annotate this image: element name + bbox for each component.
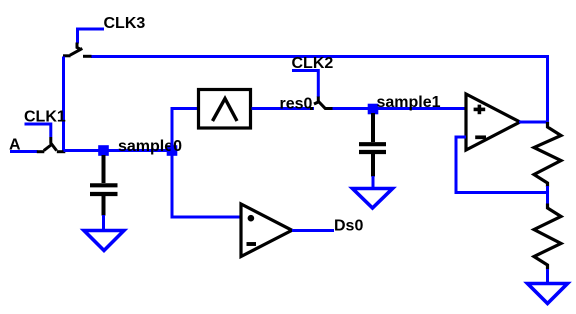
wire: vertical from S3 left terminal down to input node — [62, 57, 65, 152]
switch S1 (CLK1 controlled) — [37, 137, 66, 152]
wire: resistor midpoint stub — [546, 186, 549, 205]
peak-detector box U3 — [199, 90, 251, 129]
wire: R2 to ground — [546, 269, 549, 283]
capacitor C1 plates — [359, 144, 386, 152]
ground G2 — [528, 284, 568, 304]
node square sample0 capacitor tap — [98, 145, 109, 156]
capacitor C1 top lead — [371, 113, 375, 142]
resistor R2 — [534, 204, 561, 270]
comparator U2 plus-dot input mark — [248, 215, 255, 222]
wire: CLK3 label stub — [78, 29, 105, 44]
wire: node to sample0 horizontal — [64, 149, 173, 152]
svg-text:CLK3: CLK3 — [104, 15, 146, 32]
node square sample1 capacitor tap — [368, 104, 379, 115]
caret symbol inside box — [213, 99, 238, 122]
wire: feedback loop top horizontal and right vertical to opamp output — [91, 57, 548, 123]
wire: sample0 down to comparator input — [172, 151, 241, 218]
wire: feedback from minus input to resistor midpoint — [456, 137, 548, 193]
svg-text:res0: res0 — [280, 96, 313, 113]
svg-text:sample1: sample1 — [377, 94, 441, 111]
wire: input A horizontal — [10, 150, 38, 153]
wire: S2 to opamp plus input through sample1 — [333, 107, 467, 110]
svg-text:Ds0: Ds0 — [334, 218, 363, 235]
op-amp U1 minus mark — [475, 135, 486, 139]
op-amp U1 body — [466, 94, 520, 150]
capacitor C0 plates — [90, 185, 118, 194]
capacitor C1 bottom lead — [371, 154, 375, 177]
switch S3 (CLK3 controlled) — [63, 43, 92, 57]
ground G0 — [84, 231, 124, 251]
wire: comparator output to Ds0 — [292, 229, 334, 232]
node square sample0 tee — [167, 145, 178, 156]
switch S2 (CLK2 controlled, mirrored) — [310, 97, 333, 109]
wire: C1 to ground — [372, 176, 375, 188]
capacitor C0 top lead — [102, 155, 106, 183]
wire: CLK1 label stub — [25, 124, 51, 137]
wire: CLK2 label stub — [292, 71, 318, 98]
wire: op-amp output to resistor top node — [519, 121, 548, 124]
wire: C0 to ground — [102, 215, 105, 230]
resistor R1 — [534, 122, 561, 187]
wire: box output res0 — [252, 107, 315, 110]
op-amp U1 plus mark — [474, 105, 486, 115]
comparator U2 body — [241, 204, 292, 257]
capacitor C0 bottom lead — [102, 196, 106, 216]
comparator U2 minus input mark — [247, 242, 257, 246]
ground G1 — [353, 189, 393, 209]
wire: sample0 up to peak-detector box input — [172, 109, 198, 151]
